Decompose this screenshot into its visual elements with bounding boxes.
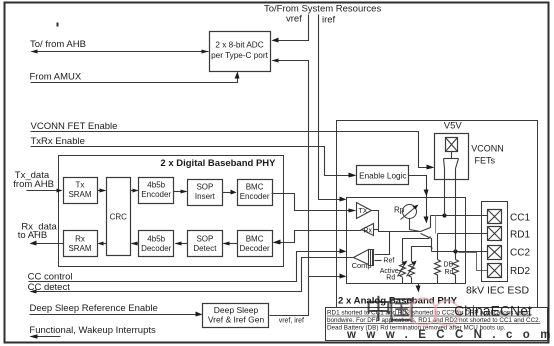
wire Rx_data — [31, 243, 64, 245]
wire 4b5bDec-CRC — [132, 243, 139, 245]
wire CRC-RxSRAM — [99, 243, 107, 245]
box Deep Sleep Vref Iref Gen — [203, 304, 269, 328]
svg-text:Insert: Insert — [195, 192, 216, 201]
wire TX-RX node to CC line — [372, 211, 421, 232]
resistor Active Rd left — [398, 261, 408, 284]
svg-text:SRAM: SRAM — [68, 244, 91, 253]
box 4b5b Decoder — [139, 231, 174, 257]
resistor Active Rd right — [407, 261, 417, 284]
svg-text:From AMUX: From AMUX — [30, 72, 82, 83]
box SOP Insert — [188, 180, 223, 206]
wire RX amp to BMCDec — [275, 231, 362, 243]
svg-text:FETs: FETs — [475, 156, 496, 166]
svg-text:VCONN FET Enable: VCONN FET Enable — [31, 121, 118, 132]
svg-text:Vref & Iref Gen: Vref & Iref Gen — [208, 315, 265, 325]
svg-text:Ref: Ref — [383, 258, 394, 265]
op-amp RX — [362, 224, 374, 236]
svg-text:国: 国 — [388, 296, 415, 326]
wire vref — [273, 15, 309, 41]
stray mark — [57, 23, 59, 27]
svg-text:Deep Sleep Reference Enable: Deep Sleep Reference Enable — [30, 303, 158, 314]
svg-text:Encoder: Encoder — [240, 192, 270, 201]
wire BMCDec-SOPDet — [224, 243, 238, 245]
footnote box — [326, 308, 548, 341]
svg-text:Encoder: Encoder — [141, 190, 171, 199]
wire RD1 line — [438, 233, 488, 235]
switch to CC1 — [421, 216, 431, 232]
wire Rp to switch — [410, 219, 421, 232]
svg-text:To/From System Resources: To/From System Resources — [264, 4, 381, 15]
wire Enable Logic to switches — [409, 176, 427, 222]
svg-text:to AHB: to AHB — [18, 230, 48, 241]
box BMC Decoder — [238, 231, 273, 257]
ESD cell CC2 — [488, 246, 502, 260]
wire Tx_data — [27, 190, 62, 192]
svg-text:SOP: SOP — [196, 183, 213, 192]
svg-text:RD2: RD2 — [510, 266, 530, 277]
svg-text:VCONN: VCONN — [471, 144, 504, 154]
ESD cell CC1 — [488, 210, 502, 224]
svg-text:CRC: CRC — [110, 213, 128, 222]
svg-text:Decoder: Decoder — [239, 244, 270, 253]
svg-text:ChinaECNet: ChinaECNet — [454, 303, 532, 319]
svg-text:from AHB: from AHB — [13, 179, 54, 190]
wire Functional Wakeup Interrupts — [31, 336, 61, 338]
box SOP Detect — [188, 231, 223, 257]
resistor DB Rd left — [435, 234, 441, 284]
wire SOPIns-BMCEnc — [223, 192, 236, 194]
transistor VCONN FET symbol — [444, 152, 459, 169]
wire Active Rd left top — [403, 237, 431, 262]
svg-text:per Type-C port: per Type-C port — [211, 51, 268, 60]
box ESD — [482, 202, 508, 282]
ADC box — [210, 32, 271, 72]
svg-text:BMC: BMC — [246, 234, 264, 243]
svg-text:2 x 8-bit ADC: 2 x 8-bit ADC — [215, 41, 263, 50]
svg-text:DB: DB — [444, 262, 454, 269]
wire TxSRAM-CRC — [98, 190, 105, 192]
svg-text:SRAM: SRAM — [68, 190, 91, 199]
wire VCONN right leg — [455, 169, 457, 252]
svg-text:Rd: Rd — [445, 269, 454, 276]
svg-text:CC control: CC control — [28, 271, 73, 282]
svg-text:Deep Sleep: Deep Sleep — [214, 305, 259, 315]
ESD cell RD1 — [488, 227, 502, 241]
svg-text:CC2: CC2 — [510, 247, 530, 258]
svg-text:To/ from AHB: To/ from AHB — [30, 39, 86, 50]
svg-text:BMC: BMC — [246, 183, 264, 192]
wire 4b5bEnc-SOPIns — [174, 191, 187, 193]
svg-text:Enable Logic: Enable Logic — [359, 171, 406, 180]
analog section outer box — [337, 121, 538, 308]
watermark — [346, 295, 554, 341]
wire BMCEnc to TX amp — [272, 194, 354, 211]
wire rail branch to analog PHY — [309, 276, 345, 278]
wire AHB-ADC — [32, 51, 209, 53]
wire Ref stub — [375, 260, 382, 262]
reference ladder bars — [369, 250, 374, 266]
wire VCONN FET Enable — [31, 132, 432, 168]
wire iref — [319, 15, 345, 200]
wire Deep Sleep Reference Enable — [30, 314, 202, 316]
box Rx SRAM — [64, 231, 98, 257]
svg-text:vref, iref: vref, iref — [279, 318, 304, 325]
analog inner box — [347, 198, 466, 284]
wire SOPDet-4b5bDec — [176, 243, 188, 245]
resistor DB Rd right — [453, 254, 459, 284]
svg-text:TX: TX — [359, 208, 368, 215]
wire RD2 short to CC2 — [459, 253, 488, 271]
junction CC2-VCONN — [453, 249, 457, 253]
svg-text:V5V: V5V — [444, 121, 463, 132]
wire ground arrow below inner box — [418, 284, 420, 291]
svg-text:CC1: CC1 — [510, 212, 530, 223]
svg-text:Rx: Rx — [364, 227, 373, 234]
svg-text:SOP: SOP — [196, 234, 213, 243]
wire CRC-4b5bEnc — [131, 190, 138, 192]
svg-text:Functional, Wakeup Interrupts: Functional, Wakeup Interrupts — [29, 325, 156, 336]
op-amp Comp — [354, 250, 369, 265]
svg-text:Detect: Detect — [193, 244, 217, 253]
box VCONN FETs — [435, 134, 469, 180]
wire VCONN left leg — [444, 169, 446, 216]
box Tx SRAM — [64, 178, 98, 204]
svg-text:Decoder: Decoder — [141, 244, 172, 253]
wire RD1 short to CC1 — [435, 216, 437, 234]
wire TxRx Enable to Enable Logic — [31, 147, 354, 176]
box Enable Logic — [357, 166, 409, 185]
ESD cell RD2 — [488, 264, 502, 278]
svg-text:Rx: Rx — [75, 234, 85, 243]
switch to CC2 — [421, 234, 432, 252]
wire CC control — [29, 252, 345, 282]
wire Active Rd right top — [412, 247, 433, 262]
wire comp tap from CC line — [375, 232, 390, 255]
svg-text:Rd: Rd — [386, 275, 395, 282]
digital baseband PHY box — [59, 156, 284, 267]
wire CC2 line — [432, 251, 488, 253]
svg-text:2 x Digital Baseband PHY: 2 x Digital Baseband PHY — [160, 158, 276, 169]
switch X symbol in VCONN box — [446, 138, 458, 152]
wire CC1 line — [431, 215, 488, 217]
svg-text:TxRx Enable: TxRx Enable — [31, 136, 85, 147]
op-amp TX — [357, 203, 372, 219]
svg-text:www.ECCN.com: www.ECCN.com — [346, 329, 554, 341]
box BMC Encoder — [238, 180, 273, 206]
junction CC1-VCONN — [442, 213, 446, 217]
wire AMUX-ADC — [31, 73, 238, 83]
svg-text:Tx: Tx — [76, 181, 85, 190]
wire CC detect from comparator — [31, 258, 354, 292]
box 4b5b Encoder — [139, 178, 174, 204]
svg-text:vref: vref — [286, 14, 302, 25]
svg-text:4b5b: 4b5b — [147, 234, 165, 243]
box CRC — [107, 178, 131, 256]
svg-text:iref: iref — [322, 15, 336, 26]
svg-text:4b5b: 4b5b — [147, 181, 165, 190]
wire ADC right to vref-iref rail — [270, 61, 309, 316]
svg-text:RD1: RD1 — [510, 229, 530, 240]
svg-text:8kV IEC ESD: 8kV IEC ESD — [466, 285, 529, 297]
